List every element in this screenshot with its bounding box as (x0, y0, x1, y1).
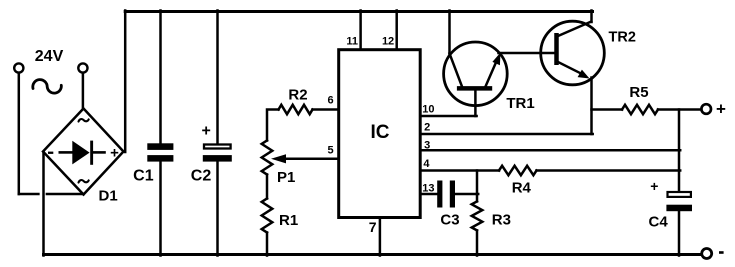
wire R4 to output node (537, 169, 681, 172)
TR1 base bar (457, 86, 492, 91)
TR2 emitter arrowhead (578, 70, 590, 79)
capacitor C3 right plate (450, 181, 455, 208)
capacitor C1 top plate (147, 143, 173, 150)
svg-text:R3: R3 (492, 212, 511, 229)
D1 marking minus (48, 152, 53, 154)
wire IC pin 11 riser (359, 11, 362, 49)
svg-text:C3: C3 (440, 212, 459, 229)
resistor R3 (472, 201, 483, 230)
wire bottom rail (0V bus) (44, 253, 702, 256)
svg-text:TR1: TR1 (506, 95, 534, 112)
terminal AC input right (78, 63, 87, 72)
svg-text:+: + (110, 145, 119, 162)
svg-text:+: + (202, 123, 211, 140)
wire top rail (+V bus) (125, 10, 592, 13)
D1 marking ~ bottom (79, 180, 89, 182)
svg-text:TR2: TR2 (609, 30, 636, 46)
transistor TR2 body (541, 21, 605, 85)
wire TR1 emitter to TR2 base (499, 52, 558, 55)
AC source sine symbol (33, 80, 62, 94)
wire R2 to IC pin 6 (313, 108, 339, 111)
resistor R2 (279, 105, 313, 114)
bridge rectifier D1 body (43, 109, 124, 195)
terminal output minus (702, 249, 712, 259)
svg-text:R4: R4 (512, 180, 532, 197)
svg-text:IC: IC (371, 122, 390, 143)
resistor R5 (622, 105, 658, 114)
svg-text:R2: R2 (288, 87, 307, 104)
wire R5 to plus terminal (658, 108, 701, 111)
capacitor C2 top plate (polarized, hollow) (204, 145, 231, 149)
wire C4 down to bottom rail (678, 211, 681, 256)
wire pin4 line down to R3 junction (476, 171, 479, 195)
svg-text:7: 7 (369, 219, 377, 235)
wire IC pin 4 to R4 (421, 169, 499, 172)
output minus sign (719, 251, 724, 254)
TR1 collector diagonal (450, 54, 463, 87)
TR2 emitter diagonal (558, 62, 581, 74)
TR1 emitter arrowhead (492, 53, 500, 66)
capacitor C2 bottom plate (203, 155, 232, 162)
wire TR2 emitter down to pin 2 line (590, 78, 593, 135)
capacitor C1 bottom plate (147, 155, 173, 162)
wire AC to bridge bottom, left of hop (19, 193, 39, 196)
TR2 collector diagonal (558, 22, 591, 37)
svg-text:P1: P1 (277, 169, 295, 186)
wire right AC terminal down to bridge top (82, 73, 85, 110)
wire IC pin 13 to C3 (421, 193, 438, 196)
P1 wiper arrowhead (271, 154, 286, 163)
svg-text:3: 3 (424, 140, 430, 152)
wire IC pin 7 drop to bottom rail (379, 219, 382, 256)
svg-text:C2: C2 (191, 168, 212, 185)
wire left AC terminal down (18, 73, 21, 194)
D1 marking ~ top (79, 119, 89, 121)
wire C3 to R3 junction (455, 193, 478, 196)
svg-text:C4: C4 (649, 214, 669, 231)
wire C2 down to bottom rail (216, 161, 219, 256)
op-amp regulator IC body (339, 50, 421, 218)
wire C1 riser from top rail (159, 11, 162, 145)
wire IC pin 10 to TR1 base (421, 115, 477, 118)
svg-text:10: 10 (422, 104, 434, 116)
TR2 base bar (554, 33, 559, 65)
wire C2 riser from top rail (216, 11, 219, 144)
wire AC to bridge bottom, right of hop (47, 193, 84, 196)
capacitor C3 left plate (437, 181, 442, 208)
wire TR2 collector riser to top rail (590, 11, 593, 23)
wire IC pin 12 riser (395, 11, 398, 49)
resistor R4 (499, 166, 537, 175)
svg-text:R1: R1 (279, 212, 298, 229)
wire IC pin 3 to output node (421, 149, 680, 152)
wire TR1 base riser (474, 90, 477, 116)
svg-text:4: 4 (423, 158, 430, 170)
wire R3 down to bottom rail (476, 231, 479, 256)
capacitor C4 top plate (polarized, hollow) (668, 192, 691, 197)
wire bridge plus corner up to top rail (124, 11, 127, 153)
diode inside D1 (59, 141, 106, 165)
svg-text:5: 5 (327, 145, 333, 157)
wire R2 left corner junction (267, 110, 279, 141)
wire emitter node to R5 (592, 108, 623, 111)
terminal output plus (701, 104, 711, 114)
svg-text:2: 2 (424, 122, 430, 134)
transistor TR1 body (444, 42, 508, 106)
terminal AC input left (14, 63, 23, 72)
svg-text:+: + (650, 178, 658, 194)
P1 wiper arrow wire from IC pin 5 (284, 158, 339, 161)
svg-text:11: 11 (346, 35, 358, 47)
wire output node riser (R5 to C4) (678, 110, 681, 192)
svg-text:24V: 24V (35, 48, 64, 65)
wire C1 down to bottom rail (159, 161, 162, 256)
svg-text:6: 6 (327, 95, 333, 107)
wire P1 to R1 (266, 175, 269, 199)
svg-text:12: 12 (382, 35, 394, 47)
svg-text:D1: D1 (99, 188, 118, 205)
svg-text:C1: C1 (133, 168, 154, 185)
svg-text:+: + (716, 100, 726, 119)
TR1 emitter diagonal (486, 64, 496, 87)
svg-text:13: 13 (422, 182, 434, 194)
resistor R1 (262, 199, 273, 233)
wire junction to R3 (476, 194, 479, 201)
wire R1 down to bottom rail (266, 233, 269, 256)
capacitor C4 bottom plate (666, 205, 692, 212)
wire IC pin 2 to TR2 emitter node (421, 133, 593, 136)
wire TR1 collector riser to top rail (448, 11, 451, 55)
potentiometer P1 track (262, 141, 273, 175)
svg-text:R5: R5 (629, 84, 648, 101)
wire bridge minus corner down to bottom rail (42, 153, 45, 256)
